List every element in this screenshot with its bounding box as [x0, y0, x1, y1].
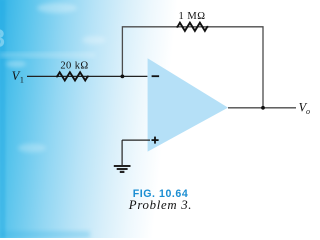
svg-text:o: o [306, 107, 310, 116]
svg-text:Problem 3.: Problem 3. [128, 198, 192, 212]
svg-text:8: 8 [0, 25, 5, 53]
svg-text:20 kΩ: 20 kΩ [60, 60, 88, 71]
svg-text:1: 1 [20, 76, 24, 85]
svg-text:1 MΩ: 1 MΩ [178, 11, 205, 22]
